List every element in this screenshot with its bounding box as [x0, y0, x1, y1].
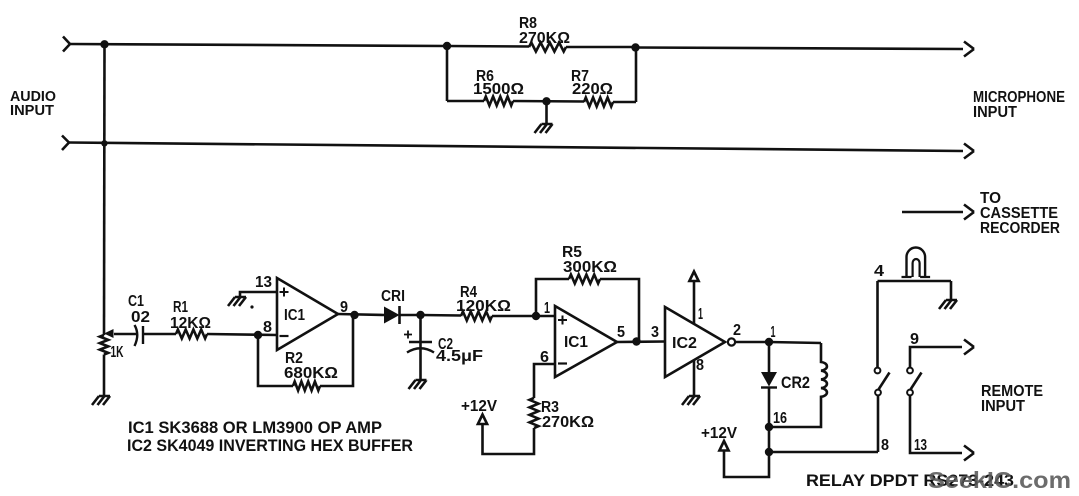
switch1 lower lead [877, 396, 880, 453]
ground at pin 13 [228, 297, 246, 306]
svg-text:INPUT: INPUT [981, 398, 1025, 415]
junction dot relay node top [765, 338, 773, 346]
wire ground stem R6R7 [545, 101, 548, 124]
svg-text:RECORDER: RECORDER [980, 220, 1060, 237]
diode CR1 [384, 306, 400, 324]
wire IC1b output [617, 340, 665, 343]
label pin 8 switch [881, 437, 889, 454]
wire IC1a output [338, 314, 384, 315]
label R3 value [542, 414, 594, 431]
switch2 lower lead pin13 [910, 396, 962, 454]
label relay pin 16 [773, 410, 787, 427]
feedback wire R5 right [600, 279, 639, 341]
svg-text:5: 5 [617, 324, 625, 341]
svg-text:4.5μF: 4.5μF [436, 348, 483, 365]
resistor R8 [529, 43, 566, 52]
svg-text:6: 6 [540, 349, 549, 366]
+12V arrow IC2 pin1 [689, 272, 698, 282]
resistor R2 [293, 382, 320, 391]
label R1 value [170, 315, 211, 332]
svg-text:12KΩ: 12KΩ [170, 315, 211, 332]
junction dot IC1b output [632, 337, 640, 345]
label IC1 second [564, 334, 588, 351]
junction dot C2 node [416, 311, 424, 319]
label pin 9 [910, 331, 919, 348]
svg-text:8: 8 [881, 437, 889, 454]
junction dot IC1a output [350, 311, 358, 319]
wire IC2 output [735, 341, 769, 344]
ground IC2 pin8 [682, 396, 700, 405]
plus sign IC1b [558, 316, 567, 325]
svg-text:8: 8 [696, 357, 704, 374]
label pin 4 [874, 263, 884, 280]
wire wiper to C1 [114, 333, 137, 336]
potentiometer 1K body [100, 335, 108, 355]
arrowhead remote bottom [964, 446, 974, 461]
svg-text:270KΩ: 270KΩ [519, 30, 570, 47]
svg-text:13: 13 [914, 437, 927, 454]
wire R1 to pin8 node [207, 334, 277, 335]
svg-text:4: 4 [874, 263, 884, 280]
wire R4 to pin1 node [492, 315, 536, 318]
label R8 [519, 15, 537, 32]
label AUDIO INPUT [10, 89, 56, 119]
wire C1 to R1 [144, 333, 176, 336]
wire parallel branch left vertical [446, 46, 449, 101]
wire relay top [769, 342, 821, 343]
resistor R3 [530, 398, 539, 428]
wire C2 node to R4 [421, 314, 462, 317]
svg-text:+12V: +12V [461, 398, 498, 415]
relay coil K1 [769, 343, 827, 427]
wire R8 right stub [566, 46, 636, 49]
svg-text:1500Ω: 1500Ω [473, 81, 524, 98]
caption IC1 type [128, 419, 382, 437]
speck dot near pin13 ground [250, 305, 253, 308]
label R7 value [572, 81, 613, 98]
svg-text:120KΩ: 120KΩ [456, 298, 511, 315]
pin 8 wire IC2 [693, 361, 696, 397]
lamp DS1 filament [913, 259, 920, 277]
minus sign IC1b [558, 362, 567, 364]
ground below C2 [409, 380, 427, 389]
label R5 value [563, 259, 617, 276]
wire R7 right stub [613, 101, 636, 104]
arrowhead to-cassette [964, 205, 974, 220]
diode CR2 [761, 342, 777, 427]
svg-text:9: 9 [910, 331, 919, 348]
switch1 lower contact [875, 390, 881, 396]
label CR1 [381, 288, 405, 305]
label IC2 [672, 335, 697, 352]
svg-text:IC1 SK3688 OR LM3900 OP AMP: IC1 SK3688 OR LM3900 OP AMP [128, 419, 382, 437]
wire to-cassette arrow line [902, 211, 963, 214]
feedback wire R2 left/bottom [258, 335, 293, 386]
wire relay common to switch1 [769, 451, 878, 454]
svg-text:1K: 1K [111, 344, 125, 361]
label pin 1 IC2 [698, 306, 703, 323]
svg-text:680KΩ: 680KΩ [284, 365, 338, 382]
caption relay type [806, 472, 1014, 490]
wire top line to microphone arrow [636, 48, 963, 50]
wire lamp to ground [950, 281, 953, 300]
junction dot pin 8 [254, 331, 262, 339]
+12V arrow for R3 [478, 415, 487, 425]
resistor R1 [176, 330, 207, 339]
svg-text:C1: C1 [128, 293, 144, 310]
svg-text:8: 8 [263, 319, 272, 336]
label pin 9 [340, 299, 348, 316]
label R5 [562, 244, 582, 261]
svg-text:13: 13 [255, 274, 272, 291]
switch1 upper contact [875, 368, 881, 374]
arrowhead remote top [964, 340, 974, 355]
svg-text:1: 1 [771, 324, 776, 341]
switch2 upper contact [907, 368, 913, 374]
ground below pot [92, 396, 110, 405]
capacitor C2 curved plate [407, 348, 434, 352]
label C2 value [436, 348, 483, 365]
junction dot IC1b pin1 node [532, 312, 540, 320]
wire R3 to +12V corner [483, 425, 535, 455]
wire bottom audio line [69, 143, 963, 152]
wire R8 left stub [447, 45, 529, 48]
label R3 [541, 399, 559, 416]
resistor R7 [584, 98, 613, 107]
watermark SeekIC.com [928, 467, 1071, 493]
wire relay node down [768, 427, 771, 452]
svg-text:220Ω: 220Ω [572, 81, 613, 98]
label R6 [476, 68, 494, 85]
wire switch2 pin9 arrow [910, 347, 962, 368]
pin 1 wire IC2 [693, 282, 696, 325]
wire pin1 to IC1b [536, 315, 555, 318]
label pin 5 [617, 324, 625, 341]
label R6 value [473, 81, 524, 98]
wire C2 top stem [419, 315, 422, 349]
op-amp IC1 first stage triangle [277, 278, 338, 350]
node audio-input top fork [63, 37, 70, 52]
plus sign C2 [404, 331, 412, 339]
label IC1 first [284, 307, 305, 324]
svg-text:IC2 SK4049 INVERTING HEX BUFFE: IC2 SK4049 INVERTING HEX BUFFER [127, 437, 413, 455]
switch1 blade [879, 373, 890, 390]
caption IC2 type [127, 437, 413, 455]
svg-text:300KΩ: 300KΩ [563, 259, 617, 276]
label TO CASSETTE RECORDER [980, 190, 1060, 237]
arrowhead bottom audio line [964, 144, 974, 159]
label C2 [438, 336, 453, 353]
svg-text:CR2: CR2 [781, 374, 810, 392]
label MICROPHONE INPUT [973, 89, 1065, 121]
label relay pin 1 [771, 324, 776, 341]
junction dot pot line crossing [101, 140, 107, 146]
ground lamp [939, 300, 957, 309]
wire pot to ground [103, 355, 106, 397]
svg-text:02: 02 [131, 309, 150, 326]
label 1K [111, 344, 125, 361]
label pin 13 [255, 274, 272, 291]
label +12V right [701, 425, 738, 442]
junction dot R6-R7 ground node [542, 97, 550, 105]
resistor R5 [569, 275, 600, 284]
lamp DS1 base ticks [902, 276, 931, 278]
wire CR1 to C2 node [399, 314, 420, 317]
wire C2 bottom stem [419, 349, 422, 380]
plus sign IC1a [280, 288, 289, 297]
svg-text:16: 16 [773, 410, 787, 427]
junction dot R8 left [443, 42, 451, 50]
switch2 lower contact [907, 390, 913, 396]
junction dot relay node bottom [765, 423, 773, 431]
svg-text:3: 3 [651, 324, 659, 341]
svg-text:INPUT: INPUT [973, 104, 1017, 121]
buffer IC2 triangle [665, 307, 725, 377]
junction dot +12V node [765, 448, 773, 456]
wire R6 left stub [447, 100, 484, 103]
svg-text:IC1: IC1 [564, 334, 588, 351]
wire lamp rail [878, 280, 952, 283]
svg-text:SeekIC.com: SeekIC.com [928, 467, 1071, 493]
label pin 3 [651, 324, 659, 341]
wire R6-R7 center [513, 100, 584, 103]
capacitor C2 top plate [409, 341, 432, 343]
wire top audio line left [70, 44, 447, 46]
resistor R4 [461, 312, 492, 321]
junction dot R8 right [631, 43, 639, 51]
svg-text:INPUT: INPUT [10, 103, 54, 119]
wire parallel branch right vertical [635, 47, 638, 102]
junction dot at pot top [100, 40, 108, 48]
op-amp IC1 second stage triangle [555, 306, 617, 377]
wire pot vertical from top line [103, 44, 106, 335]
svg-text:1: 1 [544, 300, 550, 317]
label R4 value [456, 298, 511, 315]
resistor R6 [484, 97, 513, 106]
label R2 value [284, 365, 338, 382]
label R2 [285, 350, 303, 367]
svg-text:CRI: CRI [381, 288, 405, 305]
pin 13 wire [240, 292, 277, 297]
svg-text:IC1: IC1 [284, 307, 305, 324]
ground below R6-R7 [535, 124, 553, 133]
label CR2 [781, 374, 810, 392]
wiper arrow of pot [104, 329, 114, 338]
capacitor C1 curved plate [135, 325, 138, 346]
arrowhead microphone line [964, 42, 974, 57]
minus sign IC1a [280, 335, 289, 337]
svg-text:270KΩ: 270KΩ [542, 414, 594, 431]
node audio-input bottom fork [62, 136, 69, 151]
switch2 blade [911, 373, 922, 390]
label REMOTE INPUT [981, 383, 1043, 415]
lamp DS1 outer [907, 248, 926, 278]
label pin 8 [263, 319, 272, 336]
inverter bubble IC2 [728, 338, 735, 345]
label R4 [460, 284, 477, 301]
label R8 value [519, 30, 570, 47]
+12V arrow relay [719, 441, 728, 451]
svg-text:IC2: IC2 [672, 335, 697, 352]
svg-text:1: 1 [698, 306, 703, 323]
label pin 1 IC1b [544, 300, 550, 317]
label pin 6 [540, 349, 549, 366]
pin 6 wire [534, 364, 555, 398]
svg-text:2: 2 [733, 322, 741, 339]
label pin 8 IC2 [696, 357, 704, 374]
svg-text:R1: R1 [173, 299, 188, 316]
svg-text:+12V: +12V [701, 425, 738, 442]
svg-text:9: 9 [340, 299, 348, 316]
label pin 13 [914, 437, 927, 454]
wire +12V corner right [724, 451, 769, 477]
feedback wire R5 left [536, 279, 569, 316]
label R1 [173, 299, 188, 316]
label +12V left [461, 398, 498, 415]
label R7 [571, 68, 589, 85]
feedback wire R2 right [320, 315, 353, 386]
label pin 2 IC2 [733, 322, 741, 339]
capacitor C1 flat plate [142, 326, 144, 344]
label C1 [128, 293, 150, 326]
switch1 upper lead pin4 [876, 281, 879, 368]
